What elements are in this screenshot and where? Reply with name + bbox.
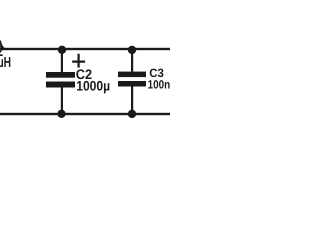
capacitor C2 bottom plate	[46, 82, 75, 88]
wire: C2 lower lead	[61, 88, 63, 115]
svg-text:100µH: 100µH	[0, 55, 11, 71]
node B: junction dot top right	[128, 46, 136, 54]
node C: junction dot bottom left	[57, 110, 65, 118]
node A: junction dot top left	[58, 46, 66, 54]
polarity + sign for C2	[72, 54, 85, 68]
capacitor C2 top plate	[46, 72, 75, 78]
svg-text:100n: 100n	[148, 77, 170, 91]
wire: C3 upper lead	[131, 49, 133, 72]
inductor L2 (cropped at left edge, last coil arc)	[0, 39, 4, 49]
node D: junction dot bottom right	[128, 110, 136, 118]
svg-text:1000µ: 1000µ	[76, 79, 110, 94]
capacitor C3 bottom plate	[118, 81, 146, 87]
wire: bottom ground rail	[0, 113, 170, 115]
capacitor C3 top plate	[118, 72, 146, 78]
wire: C2 upper lead	[61, 49, 63, 72]
wire: top supply rail	[0, 48, 170, 50]
wire: C3 lower lead	[131, 87, 133, 115]
